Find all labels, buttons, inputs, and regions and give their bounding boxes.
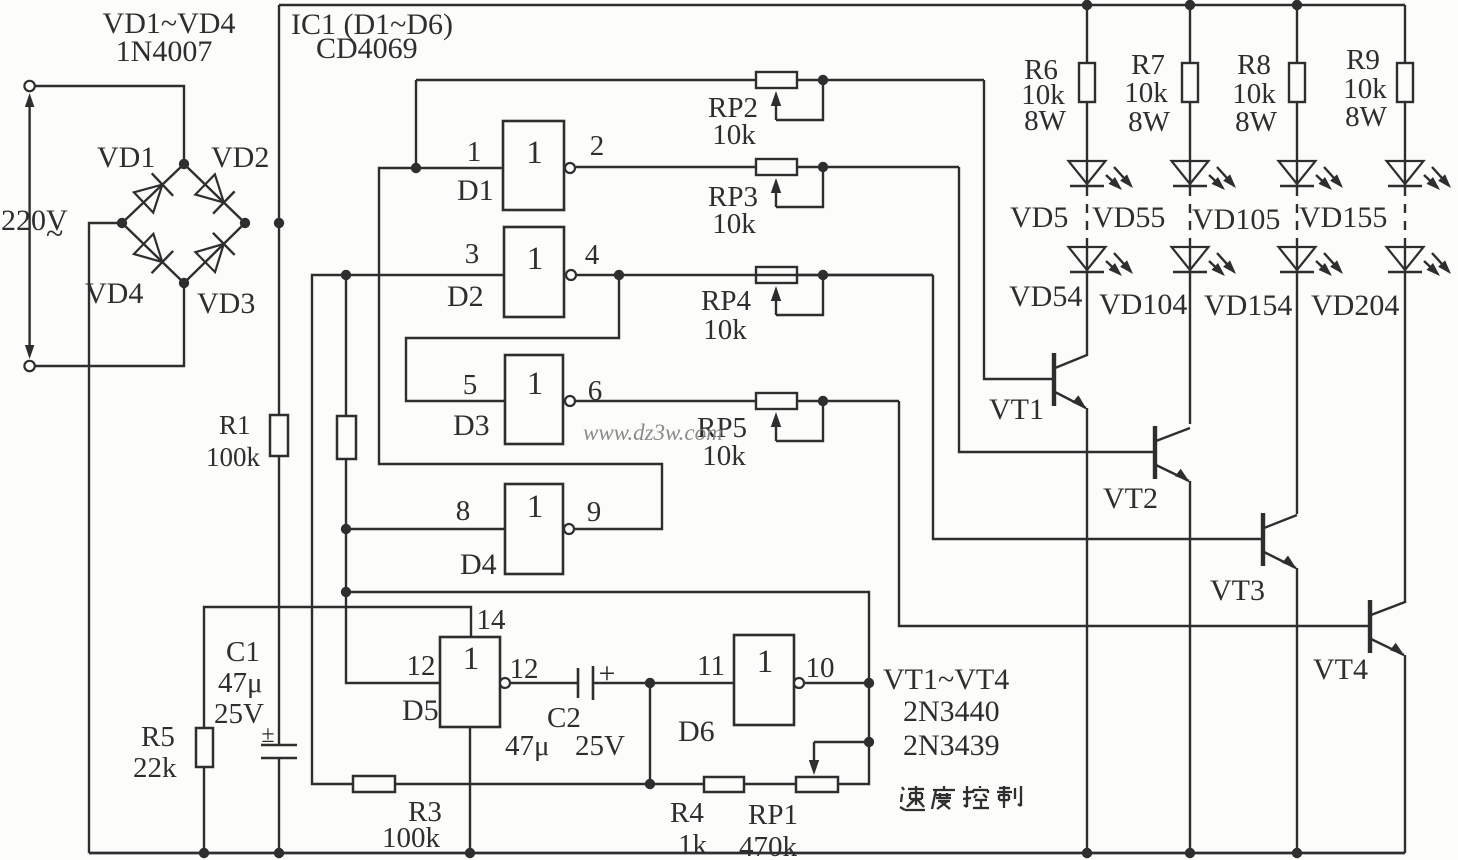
svg-text:VD2: VD2 (211, 141, 269, 174)
svg-text:10k: 10k (712, 119, 756, 151)
svg-text:D2: D2 (447, 280, 484, 313)
svg-text:10k: 10k (712, 208, 756, 240)
svg-text:25V: 25V (214, 698, 264, 730)
svg-text:C1: C1 (226, 636, 260, 668)
svg-text:R4: R4 (670, 797, 704, 829)
svg-text:D6: D6 (678, 715, 715, 748)
svg-text:3: 3 (465, 238, 480, 270)
svg-text:22k: 22k (133, 752, 177, 784)
svg-text:VT4: VT4 (1313, 653, 1368, 686)
svg-text:VT1: VT1 (989, 393, 1044, 426)
svg-text:VD105: VD105 (1192, 203, 1280, 236)
svg-text:2: 2 (590, 130, 605, 162)
svg-text:VD1: VD1 (97, 141, 155, 174)
svg-text:5: 5 (463, 369, 478, 401)
svg-text:47μ: 47μ (505, 730, 550, 762)
svg-text:VD154: VD154 (1204, 289, 1292, 322)
svg-text:VD104: VD104 (1099, 288, 1187, 321)
svg-text:10k: 10k (703, 314, 747, 346)
svg-text:12: 12 (510, 653, 539, 685)
svg-text:VT1~VT4: VT1~VT4 (883, 663, 1009, 696)
svg-text:8W: 8W (1345, 101, 1388, 133)
svg-text:6: 6 (588, 375, 603, 407)
svg-text:4: 4 (585, 239, 600, 271)
svg-text:11: 11 (697, 650, 725, 682)
svg-text:R8: R8 (1237, 49, 1271, 81)
svg-text:RP4: RP4 (701, 285, 751, 317)
svg-text:VD204: VD204 (1311, 289, 1399, 322)
svg-text:R1: R1 (219, 410, 251, 440)
svg-text:10k: 10k (1124, 77, 1168, 109)
svg-text:1: 1 (526, 135, 543, 171)
svg-text:1: 1 (757, 644, 774, 680)
svg-text:+: + (599, 657, 616, 690)
svg-text:8: 8 (456, 495, 471, 527)
svg-text:VT3: VT3 (1210, 574, 1265, 607)
svg-text:10: 10 (806, 652, 835, 684)
svg-text:100k: 100k (382, 822, 441, 854)
svg-text:VD3: VD3 (197, 287, 255, 320)
svg-text:VD54: VD54 (1009, 280, 1082, 313)
svg-text:1: 1 (527, 489, 544, 525)
svg-text:1N4007: 1N4007 (116, 35, 213, 68)
svg-text:8W: 8W (1024, 105, 1067, 137)
svg-text:VD155: VD155 (1299, 201, 1387, 234)
svg-text:D1: D1 (457, 174, 494, 207)
svg-text:VD4: VD4 (85, 277, 143, 310)
svg-text:2N3439: 2N3439 (903, 729, 1000, 762)
svg-text:~: ~ (46, 215, 63, 251)
svg-text:VD55: VD55 (1092, 201, 1165, 234)
svg-text:R5: R5 (141, 721, 175, 753)
svg-text:VD5: VD5 (1010, 201, 1068, 234)
svg-text:14: 14 (477, 604, 507, 636)
svg-text:D5: D5 (402, 694, 439, 727)
svg-text:1k: 1k (678, 829, 708, 860)
svg-text:47μ: 47μ (218, 667, 263, 699)
svg-text:R9: R9 (1346, 44, 1380, 76)
svg-text:1: 1 (527, 241, 544, 277)
svg-text:www.dz3w.com: www.dz3w.com (583, 420, 723, 445)
svg-text:470k: 470k (739, 831, 798, 860)
svg-text:12: 12 (407, 650, 436, 682)
svg-text:RP1: RP1 (748, 799, 798, 831)
svg-text:2N3440: 2N3440 (903, 695, 1000, 728)
svg-text:25V: 25V (575, 730, 625, 762)
svg-text:100k: 100k (206, 442, 261, 472)
svg-text:VT2: VT2 (1103, 482, 1158, 515)
svg-text:D4: D4 (460, 548, 497, 581)
svg-text:D3: D3 (453, 409, 490, 442)
svg-text:8W: 8W (1128, 106, 1171, 138)
svg-text:CD4069: CD4069 (316, 32, 418, 65)
svg-text:9: 9 (587, 496, 602, 528)
svg-text:1: 1 (527, 366, 544, 402)
svg-text:1: 1 (467, 136, 482, 168)
svg-text:1: 1 (463, 641, 480, 677)
svg-text:8W: 8W (1235, 106, 1278, 138)
